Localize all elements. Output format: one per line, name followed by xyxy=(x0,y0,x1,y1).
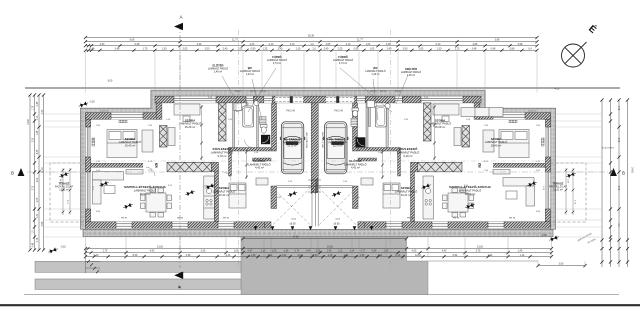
svg-text:-0.02: -0.02 xyxy=(291,219,297,221)
dark highlight box tarolo left xyxy=(286,141,299,145)
top dimension ticks xyxy=(84,36,87,39)
partition bath/wc left unit xyxy=(246,103,248,127)
svg-text:4,25: 4,25 xyxy=(37,149,39,154)
door gap wing wall right xyxy=(481,163,493,168)
svg-text:2,40: 2,40 xyxy=(387,47,392,50)
svg-text:A: A xyxy=(179,15,182,20)
svg-text:2,02: 2,02 xyxy=(37,177,39,182)
svg-text:15,40 m²: 15,40 m² xyxy=(125,144,136,148)
level marker xyxy=(465,202,476,210)
level marker xyxy=(566,171,577,179)
level marker xyxy=(123,202,134,210)
svg-text:14,60: 14,60 xyxy=(28,118,30,124)
tv shelf nappali left xyxy=(126,170,143,175)
partition bath/wc right unit xyxy=(369,103,371,127)
svg-text:1,75: 1,75 xyxy=(143,47,148,50)
survey marker top-left xyxy=(78,101,89,109)
wall kitchen/szoba right unit xyxy=(411,172,415,222)
entry door opening right unit xyxy=(395,96,402,103)
door gap wing wall left xyxy=(143,163,155,168)
svg-text:1,02: 1,02 xyxy=(378,254,383,257)
svg-text:2,40: 2,40 xyxy=(278,47,283,50)
bed wing szoba left xyxy=(107,130,137,158)
svg-text:1,75: 1,75 xyxy=(455,47,460,50)
exterior wall right xyxy=(545,113,550,229)
interior wall stub left unit xyxy=(211,162,218,172)
car left carport xyxy=(280,122,305,174)
step wall right xyxy=(474,96,480,119)
svg-text:1,75: 1,75 xyxy=(33,105,35,110)
window right wall (szoba) xyxy=(545,127,550,157)
kitchen counter right xyxy=(423,176,434,219)
svg-text:90/2,40: 90/2,40 xyxy=(235,91,241,93)
svg-text:-0,02: -0,02 xyxy=(541,235,547,237)
svg-text:15,29 m²: 15,29 m² xyxy=(435,125,446,129)
svg-text:1,43 m²: 1,43 m² xyxy=(246,73,254,76)
svg-text:6,10: 6,10 xyxy=(436,43,441,46)
carport front beam right xyxy=(318,186,352,188)
svg-text:3,30: 3,30 xyxy=(617,138,619,143)
svg-text:0,96: 0,96 xyxy=(372,250,377,253)
svg-text:10,81: 10,81 xyxy=(327,246,334,249)
wall below bath row right unit xyxy=(358,148,401,152)
wardrobe top szoba right xyxy=(454,128,461,146)
ridge dashed line xyxy=(91,160,546,162)
carport roof projection X left xyxy=(272,188,311,226)
svg-text:11,77: 11,77 xyxy=(232,39,238,42)
dining table left xyxy=(141,188,172,217)
wall szoba/nappali wing right xyxy=(479,163,546,167)
svg-text:3,50: 3,50 xyxy=(403,47,408,50)
washing machine left unit xyxy=(234,103,242,111)
svg-text:0,56: 0,56 xyxy=(316,250,321,253)
svg-text:±0.00: ±0.00 xyxy=(334,223,341,226)
carport side wall right xyxy=(353,186,359,209)
svg-text:-0,30: -0,30 xyxy=(89,102,95,104)
right extension lines xyxy=(554,113,601,115)
svg-text:0,90: 0,90 xyxy=(251,47,256,50)
svg-text:3,06: 3,06 xyxy=(559,262,564,265)
svg-text:36,59 m²: 36,59 m² xyxy=(140,192,151,196)
tv shelf nappali right xyxy=(493,170,510,175)
partition entry/bath right unit xyxy=(386,103,388,148)
carport side wall left xyxy=(271,186,277,209)
elevation markers xyxy=(254,226,258,230)
svg-text:9,79 m²: 9,79 m² xyxy=(217,154,226,158)
section arrow A top xyxy=(174,23,183,31)
svg-text:1,48: 1,48 xyxy=(37,130,39,135)
carport openings right (two bays with posts) xyxy=(326,96,354,103)
terrace dim mini chain left xyxy=(63,168,573,215)
bottom wall left segment xyxy=(86,222,265,228)
svg-text:11,97: 11,97 xyxy=(42,166,44,172)
svg-text:PM 2,40: PM 2,40 xyxy=(334,110,343,112)
carport front beam left xyxy=(277,186,312,188)
svg-text:1,45 m²: 1,45 m² xyxy=(407,74,415,77)
svg-text:1,49 m²: 1,49 m² xyxy=(214,71,222,74)
window top szoba left unit xyxy=(174,96,216,103)
svg-text:0,74: 0,74 xyxy=(37,237,39,242)
door arc szoba wing left xyxy=(146,167,155,176)
svg-text:PM 2,40: PM 2,40 xyxy=(286,110,295,112)
bed lower szoba right xyxy=(383,183,400,208)
svg-text:0,92: 0,92 xyxy=(453,254,458,257)
north compass xyxy=(562,42,587,67)
svg-text:3,70: 3,70 xyxy=(617,186,619,191)
bathtub right unit xyxy=(375,106,386,127)
door arc lower szoba left xyxy=(222,172,231,181)
sofa nappali left xyxy=(93,172,124,205)
svg-text:3,98: 3,98 xyxy=(518,43,523,46)
terrace door right wall (nappali) xyxy=(545,172,550,209)
svg-text:SZOBA: SZOBA xyxy=(435,118,446,122)
road direction arrow xyxy=(175,272,183,279)
svg-text:PM 90: PM 90 xyxy=(121,218,128,220)
level marker xyxy=(185,189,196,197)
svg-text:1,45: 1,45 xyxy=(518,250,523,253)
wall szeltér south right unit xyxy=(358,158,377,161)
radiator right wall szoba xyxy=(541,138,544,146)
level marker xyxy=(287,190,298,198)
right lower chain 3,06 xyxy=(538,265,585,267)
dining table right xyxy=(443,188,474,217)
kerb line right of paving xyxy=(428,260,538,262)
svg-text:1,25: 1,25 xyxy=(263,47,268,50)
window PM90 nappali right 1 xyxy=(488,222,504,228)
svg-text:1,03: 1,03 xyxy=(250,43,255,46)
svg-text:0,48: 0,48 xyxy=(135,43,140,46)
paved driveway area (gray) xyxy=(241,237,428,295)
wall below bath row left unit xyxy=(229,148,272,152)
washbasin left unit xyxy=(254,101,259,106)
svg-text:3,50: 3,50 xyxy=(205,47,210,50)
bath window left unit xyxy=(264,96,272,103)
svg-text:NAPPALI+ÉTKEZŐ+KONYHA: NAPPALI+ÉTKEZŐ+KONYHA xyxy=(124,184,166,189)
shower (dark) left unit xyxy=(261,135,270,144)
bottom dimension chain xyxy=(86,248,552,250)
interior X-wall szoba right side left unit xyxy=(219,103,227,141)
partition wc/shower left unit xyxy=(257,103,259,148)
svg-text:B: B xyxy=(11,171,14,176)
wall szoba/nappali wing left xyxy=(91,163,158,167)
step wall left xyxy=(156,96,162,119)
svg-text:15,29 m²: 15,29 m² xyxy=(185,125,196,129)
top extension lines xyxy=(85,52,87,93)
svg-text:SZOBA: SZOBA xyxy=(185,118,196,122)
terrace right (dashed outline) xyxy=(551,163,587,222)
svg-text:3,88: 3,88 xyxy=(510,47,515,50)
svg-text:1,43 m²: 1,43 m² xyxy=(371,73,379,76)
svg-text:PM 90: PM 90 xyxy=(509,218,516,220)
washing machine right unit xyxy=(367,101,375,108)
svg-text:90/2,40: 90/2,40 xyxy=(395,91,401,93)
window PM90 szoba left xyxy=(218,222,234,228)
svg-text:0,90: 0,90 xyxy=(354,47,359,50)
desk top szoba left xyxy=(174,104,200,122)
wall bath cluster / carport right xyxy=(353,103,358,151)
svg-text:2,10: 2,10 xyxy=(269,43,274,46)
svg-text:1,05: 1,05 xyxy=(272,250,277,253)
window PM90 nappali left 2 xyxy=(172,222,188,228)
section arrow B left xyxy=(18,168,25,176)
bottom dim line 14,60 xyxy=(243,238,407,240)
washbasin right unit xyxy=(385,103,390,108)
toilet right unit xyxy=(352,108,359,117)
svg-text:3,10: 3,10 xyxy=(290,43,295,46)
window wing top wall right xyxy=(493,113,525,120)
svg-text:1,40: 1,40 xyxy=(328,254,333,257)
interior X-wall szoba/wing right xyxy=(462,126,470,148)
right vertical dimension chain xyxy=(601,100,603,267)
svg-text:-0,02: -0,02 xyxy=(60,247,66,249)
svg-text:4,30: 4,30 xyxy=(555,89,560,91)
svg-text:±0.00: ±0.00 xyxy=(290,223,297,226)
wardrobe wing szoba right xyxy=(483,130,494,152)
svg-text:1,48: 1,48 xyxy=(251,254,256,257)
svg-text:3,35: 3,35 xyxy=(201,250,206,253)
svg-text:2,40: 2,40 xyxy=(324,47,329,50)
door arc bath left xyxy=(245,140,253,148)
bed lower szoba left xyxy=(229,183,246,208)
level marker xyxy=(527,180,538,188)
wall bath cluster / carport left xyxy=(272,103,277,151)
svg-text:0,56: 0,56 xyxy=(42,221,44,226)
svg-text:SZOBA: SZOBA xyxy=(219,186,230,190)
sideboard right wing szoba xyxy=(461,108,503,117)
svg-text:KÖZLEKEDŐ: KÖZLEKEDŐ xyxy=(213,146,233,151)
svg-text:1,45: 1,45 xyxy=(327,250,332,253)
wing top wall right xyxy=(476,113,551,120)
left extension lines xyxy=(45,113,85,115)
svg-text:9,66: 9,66 xyxy=(130,39,135,42)
svg-text:0,48: 0,48 xyxy=(491,47,496,50)
svg-text:SZOBA: SZOBA xyxy=(491,137,502,141)
interior X-wall szoba left side right unit xyxy=(424,103,432,141)
svg-text:4,05: 4,05 xyxy=(412,250,417,253)
svg-text:14,60: 14,60 xyxy=(631,167,633,173)
wing top wall left xyxy=(86,113,161,120)
svg-text:2,02: 2,02 xyxy=(298,254,303,257)
svg-text:4,38: 4,38 xyxy=(186,254,191,257)
wall elotér left unit xyxy=(229,151,232,176)
svg-text:1,30: 1,30 xyxy=(437,47,442,50)
shower (dark) right unit xyxy=(356,137,366,147)
svg-text:3,44: 3,44 xyxy=(306,250,311,253)
axis dashed line right unit xyxy=(390,30,392,268)
bottom dimension ticks xyxy=(84,247,87,250)
svg-text:0,48: 0,48 xyxy=(37,101,39,106)
svg-text:SZOBA: SZOBA xyxy=(125,137,136,141)
svg-text:2,05: 2,05 xyxy=(183,47,188,50)
centre wall lower posts (double lines) xyxy=(312,193,318,227)
level marker xyxy=(205,183,216,191)
svg-text:2,75: 2,75 xyxy=(103,250,108,253)
wardrobe top szoba left xyxy=(168,128,175,146)
svg-text:PM 90: PM 90 xyxy=(223,218,230,220)
bottom wall right segment xyxy=(358,222,551,228)
svg-text:4,42 m²: 4,42 m² xyxy=(255,166,264,170)
walkway band below building xyxy=(83,229,553,236)
interior X-wall horizontal right unit xyxy=(418,162,462,172)
bottom wall pier right carport xyxy=(358,222,365,228)
wardrobe lower szoba left xyxy=(256,178,268,185)
svg-text:15,75 m²: 15,75 m² xyxy=(287,145,297,148)
section line B-B xyxy=(27,171,608,173)
carport roof projection X right xyxy=(319,188,358,226)
partition wc/shower right unit xyxy=(366,103,368,148)
road band upper xyxy=(35,261,241,272)
svg-text:3,05: 3,05 xyxy=(326,43,331,46)
pavement edge line xyxy=(24,294,619,296)
survey marker bottom-right xyxy=(549,235,560,243)
svg-text:1,13: 1,13 xyxy=(261,250,266,253)
svg-text:-0,05: -0,05 xyxy=(277,197,283,199)
svg-text:0,48: 0,48 xyxy=(90,47,95,50)
svg-text:3,74 m²: 3,74 m² xyxy=(273,62,281,65)
svg-text:90/2,40: 90/2,40 xyxy=(250,91,256,93)
svg-text:13,01 m²: 13,01 m² xyxy=(553,189,563,192)
door arc entry left xyxy=(236,101,247,112)
svg-text:3,86: 3,86 xyxy=(473,43,478,46)
svg-text:13,41 m²: 13,41 m² xyxy=(219,193,230,197)
svg-text:0,48: 0,48 xyxy=(33,242,35,247)
level marker xyxy=(331,190,342,198)
centre party wall xyxy=(311,103,318,193)
svg-text:11,77: 11,77 xyxy=(357,39,363,42)
wall elotér south left unit xyxy=(253,158,272,161)
interior wall stub right unit xyxy=(411,162,418,172)
svg-text:8,36: 8,36 xyxy=(133,254,138,257)
svg-text:2,05: 2,05 xyxy=(419,47,424,50)
car right carport xyxy=(323,122,348,174)
bed wing szoba right xyxy=(499,130,529,158)
window left wall (szoba) xyxy=(86,127,91,157)
svg-text:0,62: 0,62 xyxy=(282,254,287,257)
svg-text:4,49: 4,49 xyxy=(386,43,391,46)
svg-text:1,30: 1,30 xyxy=(37,213,39,218)
svg-text:4,42 m²: 4,42 m² xyxy=(351,166,360,170)
svg-text:90/2,40: 90/2,40 xyxy=(380,91,386,93)
svg-text:0,97: 0,97 xyxy=(248,250,253,253)
axis dashed line left unit xyxy=(238,30,240,268)
svg-text:1,03: 1,03 xyxy=(366,43,371,46)
svg-text:2,75: 2,75 xyxy=(476,250,481,253)
svg-text:B: B xyxy=(622,171,625,176)
bottom extension lines xyxy=(85,238,87,258)
svg-text:3,98: 3,98 xyxy=(495,39,500,42)
interior X-wall horizontal left unit xyxy=(167,162,211,172)
svg-text:4,43: 4,43 xyxy=(150,250,155,253)
svg-text:2,10: 2,10 xyxy=(346,43,351,46)
window PM90 nappali right 2 xyxy=(432,222,448,228)
svg-text:1,16: 1,16 xyxy=(520,254,525,257)
svg-text:6,00: 6,00 xyxy=(108,81,113,83)
svg-text:1,13: 1,13 xyxy=(37,115,39,120)
svg-text:1,13: 1,13 xyxy=(338,250,343,253)
desk top szoba right xyxy=(433,104,459,122)
svg-text:SZOBA: SZOBA xyxy=(401,186,412,190)
svg-text:-0.02: -0.02 xyxy=(335,219,341,221)
svg-text:3,74 m²: 3,74 m² xyxy=(339,62,347,65)
callout leader lines xyxy=(222,68,408,120)
svg-text:1,00/1,50: 1,00/1,50 xyxy=(528,110,537,112)
svg-text:2,40: 2,40 xyxy=(223,47,228,50)
left end tick cluster bottom chains xyxy=(87,247,100,273)
radiator wing window right xyxy=(509,120,517,123)
svg-text:FAGYÁLLÓ LAP: FAGYÁLLÓ LAP xyxy=(305,131,308,148)
section arrow B right xyxy=(610,168,617,176)
svg-text:10,81: 10,81 xyxy=(415,254,422,257)
window top szoba right unit xyxy=(421,96,463,103)
bottom frame line xyxy=(0,304,640,306)
svg-text:1,05: 1,05 xyxy=(234,250,239,253)
exterior wall left xyxy=(86,113,91,229)
svg-text:1,02: 1,02 xyxy=(268,254,273,257)
svg-text:1,00/1,50: 1,00/1,50 xyxy=(100,110,109,112)
window wing top wall left xyxy=(111,113,143,120)
eaves overhang band (stipple ring) xyxy=(80,90,555,229)
svg-text:PM 90: PM 90 xyxy=(407,218,414,220)
svg-text:3,48: 3,48 xyxy=(115,47,120,50)
entry door opening left unit xyxy=(246,96,253,103)
svg-text:90/2,40: 90/2,40 xyxy=(260,91,266,93)
svg-text:NAPPALI+ÉTKEZŐ+KONYHA: NAPPALI+ÉTKEZŐ+KONYHA xyxy=(449,184,491,189)
svg-text:1,44: 1,44 xyxy=(226,254,231,257)
svg-text:1,30: 1,30 xyxy=(162,47,167,50)
svg-text:90/2,40: 90/2,40 xyxy=(370,91,376,93)
svg-text:1,30: 1,30 xyxy=(296,47,301,50)
svg-text:6,19 m²: 6,19 m² xyxy=(403,154,412,158)
section arrow A bottom xyxy=(174,272,182,279)
svg-text:0,30: 0,30 xyxy=(42,109,44,114)
bathtub left unit xyxy=(243,106,254,127)
svg-text:3,30: 3,30 xyxy=(33,137,35,142)
svg-text:1,08: 1,08 xyxy=(284,250,289,253)
bottom wall pier left carport xyxy=(265,222,272,228)
survey marker bottom-left xyxy=(48,247,59,255)
svg-text:2,05: 2,05 xyxy=(37,197,39,202)
radiator left wall szoba xyxy=(92,138,95,146)
svg-text:4,49: 4,49 xyxy=(197,43,202,46)
svg-text:PM 90: PM 90 xyxy=(453,218,460,220)
svg-text:0,90: 0,90 xyxy=(313,254,318,257)
svg-text:13,81: 13,81 xyxy=(477,246,484,249)
wall szeltér right unit xyxy=(398,151,401,176)
svg-text:1,02: 1,02 xyxy=(344,254,349,257)
svg-text:1,25: 1,25 xyxy=(338,47,343,50)
svg-text:3,48: 3,48 xyxy=(472,47,477,50)
central top wall xyxy=(155,96,481,103)
property boundary line xyxy=(25,87,620,89)
wardrobe wing szoba left xyxy=(142,130,153,152)
radiator bath left xyxy=(260,117,267,125)
svg-text:1,45: 1,45 xyxy=(360,254,365,257)
radiator wing window left xyxy=(119,120,127,123)
svg-text:15,40 m²: 15,40 m² xyxy=(491,144,502,148)
svg-text:26,36: 26,36 xyxy=(308,35,315,38)
svg-text:1,05: 1,05 xyxy=(384,250,389,253)
svg-text:14,60: 14,60 xyxy=(293,235,300,238)
svg-text:15,75 m²: 15,75 m² xyxy=(333,145,343,148)
carport openings left (two bays with posts) xyxy=(275,96,303,103)
svg-text:3,70: 3,70 xyxy=(33,185,35,190)
window PM90 nappali left 1 xyxy=(116,222,132,228)
svg-text:1,44: 1,44 xyxy=(488,254,493,257)
svg-text:0,74: 0,74 xyxy=(295,250,300,253)
terrace left (dashed outline) xyxy=(50,163,86,222)
partition entry/bath left unit xyxy=(233,103,235,148)
dark highlight box tarolo right xyxy=(331,141,344,145)
